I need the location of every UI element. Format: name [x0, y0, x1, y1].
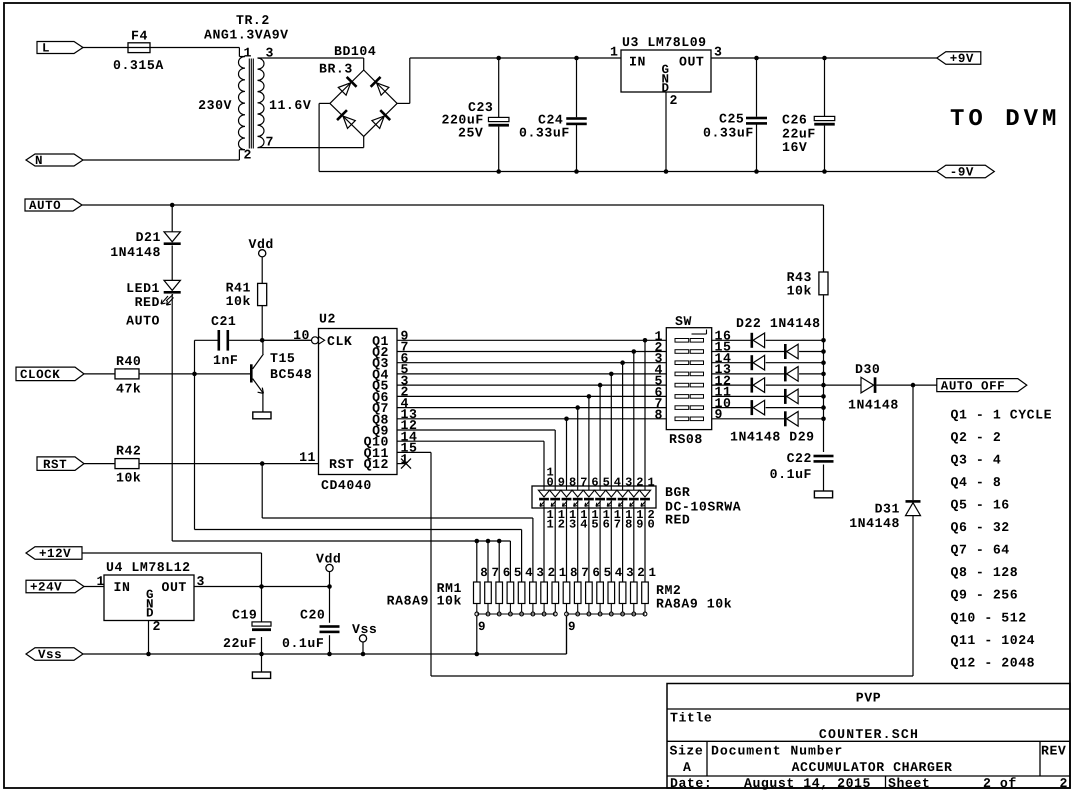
svg-text:Title: Title [670, 711, 712, 726]
junction dot Q7 [575, 405, 580, 410]
svg-text:6: 6 [603, 518, 611, 532]
junction dot bus row 5 [821, 383, 826, 388]
svg-text:RA8A9: RA8A9 [387, 594, 429, 609]
wire fuse to transformer [150, 48, 239, 57]
svg-text:7: 7 [614, 518, 622, 532]
svg-text:RST: RST [43, 458, 67, 472]
wire R42 to U2 RST [139, 463, 319, 465]
ground (T15 emitter) [253, 412, 271, 419]
svg-text:U2: U2 [319, 312, 336, 327]
svg-text:Date:: Date: [670, 776, 712, 791]
svg-text:RS08: RS08 [669, 432, 703, 447]
svg-text:3: 3 [714, 45, 722, 60]
wire LED1 to RM1 pins 5-8 [172, 294, 510, 541]
svg-text:8: 8 [570, 566, 578, 580]
voltage regulator U3 LM78L09 [610, 35, 722, 172]
wire U2 Q9 to BGR pin 9 [397, 430, 555, 486]
svg-text:5: 5 [514, 566, 522, 580]
svg-text:6: 6 [592, 566, 600, 580]
capacitor C24 0.33uF [519, 113, 587, 141]
svg-text:D30: D30 [855, 362, 880, 377]
svg-text:CD4040: CD4040 [321, 478, 372, 493]
svg-text:22uF: 22uF [223, 636, 257, 651]
resistor R43 10k [787, 270, 828, 299]
junction dot Q1 [643, 338, 648, 343]
wire BGR pin15 to RM2 pin6 [588, 508, 590, 582]
transformer TR.2 ANG1.3VA9V [198, 13, 311, 163]
svg-text:7: 7 [580, 476, 588, 490]
wire U4 out to Vdd node [194, 586, 330, 588]
svg-text:R42: R42 [116, 444, 141, 459]
svg-text:47k: 47k [116, 382, 141, 397]
svg-text:C22: C22 [787, 451, 812, 466]
svg-text:BR.3: BR.3 [319, 62, 353, 77]
transistor T15 BC548 [250, 340, 312, 412]
svg-text:Q8 - 128: Q8 - 128 [951, 565, 1019, 580]
svg-text:TR.2: TR.2 [236, 13, 270, 28]
wire C26 [824, 58, 826, 172]
wire Q8 to BGR pin 8 [566, 419, 568, 486]
wire U2 Q5 to SW pin 5 [397, 384, 666, 386]
svg-text:8: 8 [480, 566, 488, 580]
junction dot bus row 4 [821, 372, 826, 377]
capacitor C22 0.1uF [770, 451, 834, 482]
ground (C19) [252, 672, 270, 678]
text D22 1N4148 [736, 316, 821, 331]
diode D22 column row pin16 [712, 333, 824, 348]
text Q output cycle table [951, 407, 1053, 670]
junction dot Q3 [620, 360, 625, 365]
wire +12V to Vdd rail [82, 553, 262, 587]
svg-text:2: 2 [636, 476, 644, 490]
svg-text:OUT: OUT [162, 580, 187, 595]
svg-text:0: 0 [648, 518, 656, 532]
svg-text:L: L [42, 42, 50, 56]
junction dot RST branch [260, 461, 265, 466]
junction dot Q8 [564, 417, 569, 422]
svg-text:10k: 10k [437, 594, 462, 609]
svg-text:3: 3 [626, 566, 634, 580]
svg-text:1: 1 [547, 518, 555, 532]
svg-text:AUTO: AUTO [126, 314, 160, 329]
wire U2 Q6 to SW pin 6 [397, 395, 666, 397]
wire C22 to ground [823, 465, 825, 492]
wire R40 to T15 base [139, 373, 250, 375]
wire Q1 to BGR pin 1 [644, 340, 646, 486]
port RST [37, 457, 84, 472]
wire BGR pin19 to RM2 pin2 [633, 508, 635, 582]
junction dot Q2 [632, 349, 637, 354]
svg-text:Q11 - 1024: Q11 - 1024 [951, 633, 1036, 648]
svg-text:BD104: BD104 [334, 44, 376, 59]
port CLOCK [16, 367, 84, 382]
resistor network RM2 RA8A9 10k [563, 566, 732, 654]
capacitor C26 22uF 16V [782, 113, 835, 156]
resistor R41 10k [226, 257, 267, 309]
wire bridge left to -9V rail [319, 103, 937, 171]
diode D30 1N4148 [824, 362, 899, 413]
wire Q2 to BGR pin 2 [633, 352, 635, 487]
wire C25 [756, 58, 758, 172]
wire C24 [576, 58, 578, 172]
wire Vdd circle [329, 572, 331, 587]
capacitor C21 1nF [211, 314, 238, 368]
svg-text:Document Number: Document Number [711, 744, 843, 759]
wire C21 left to CLOCK line [195, 340, 218, 374]
svg-text:0.33uF: 0.33uF [519, 126, 570, 141]
svg-text:CLOCK: CLOCK [20, 368, 60, 382]
wire bridge right to +9V rail [397, 58, 621, 103]
svg-text:Q7 - 64: Q7 - 64 [951, 543, 1010, 558]
svg-text:0.1uF: 0.1uF [770, 467, 812, 482]
junction dot AUTO/D21 [170, 203, 175, 208]
svg-text:7: 7 [581, 566, 589, 580]
port +24V [26, 580, 84, 594]
diode D22 column row pin12 [712, 378, 824, 393]
capacitor C20 0.1uF [282, 587, 340, 655]
svg-text:Q6 - 32: Q6 - 32 [951, 520, 1010, 535]
svg-text:C26: C26 [782, 113, 807, 128]
wire BGR pin13 to RM2 pin8 [566, 508, 568, 582]
svg-text:+9V: +9V [950, 52, 974, 66]
svg-text:4: 4 [614, 476, 622, 490]
wire AUTO line [82, 205, 824, 272]
junction dot bus row 8 [821, 417, 826, 422]
svg-text:REV: REV [1041, 744, 1066, 759]
svg-text:5: 5 [604, 566, 612, 580]
svg-text:CLK: CLK [327, 334, 352, 349]
svg-text:16V: 16V [782, 140, 807, 155]
LED bargraph BGR DC-10SRWA RED [532, 466, 741, 532]
svg-text:August 14, 2015: August 14, 2015 [744, 776, 871, 791]
svg-text:D31: D31 [875, 502, 900, 517]
svg-text:9: 9 [558, 476, 566, 490]
wire transformer pin7 to bridge bottom [263, 136, 364, 147]
svg-text:ANG1.3VA9V: ANG1.3VA9V [204, 28, 289, 43]
wire BGR pin11 to RM1 pin2 [543, 508, 545, 582]
svg-text:LED1: LED1 [126, 281, 160, 296]
diode D31 1N4148 [849, 385, 920, 531]
svg-text:2: 2 [1060, 776, 1068, 791]
wire stub RM1 pin3 top [532, 518, 534, 582]
junction dot Q5 [598, 383, 603, 388]
wire +24V to U4 [84, 586, 104, 588]
svg-text:T15: T15 [270, 351, 295, 366]
svg-text:2: 2 [244, 148, 252, 163]
svg-text:2: 2 [558, 518, 566, 532]
wire stubs RM1 pins 5-8 tops [477, 541, 511, 582]
port N [26, 154, 83, 168]
svg-text:1: 1 [610, 45, 618, 60]
svg-text:OUT: OUT [679, 55, 704, 70]
svg-text:2: 2 [153, 619, 161, 634]
svg-text:10k: 10k [116, 471, 141, 486]
wire BGR pin20 to RM2 pin1 [644, 508, 646, 582]
wire Q5 to BGR pin 5 [599, 385, 601, 486]
junction dot bus row 7 [821, 405, 826, 410]
svg-text:Q12: Q12 [364, 457, 389, 472]
svg-text:25V: 25V [458, 126, 483, 141]
diode D22 column row pin10 [712, 400, 824, 415]
svg-text:RED: RED [665, 513, 690, 528]
junction dots Vss rail [146, 652, 479, 657]
svg-text:U3 LM78L09: U3 LM78L09 [622, 35, 707, 50]
svg-text:Q12 - 2048: Q12 - 2048 [951, 655, 1036, 670]
svg-text:C25: C25 [719, 112, 744, 127]
diode D29 column row pin12 [712, 366, 824, 381]
svg-text:6: 6 [503, 566, 511, 580]
svg-text:1: 1 [559, 566, 567, 580]
svg-text:Size: Size [670, 744, 704, 759]
voltage regulator U4 LM78L12 [97, 560, 205, 654]
svg-text:COUNTER.SCH: COUNTER.SCH [819, 727, 919, 742]
diode D29 column row pin14 [712, 344, 824, 359]
wire U2 Q4 to SW pin 4 [397, 373, 666, 375]
svg-text:AUTO: AUTO [29, 199, 61, 213]
junction dot Q6 [587, 394, 592, 399]
svg-text:IN: IN [114, 580, 131, 595]
svg-text:Q3 - 4: Q3 - 4 [951, 452, 1002, 467]
svg-text:9: 9 [478, 620, 486, 634]
svg-text:1: 1 [649, 566, 657, 580]
svg-text:0: 0 [547, 476, 555, 490]
wire U2 Q3 to SW pin 3 [397, 362, 666, 364]
svg-text:+12V: +12V [39, 547, 71, 561]
diode D29 column row pin10 [712, 389, 824, 404]
svg-text:9: 9 [568, 620, 576, 634]
resistor R42 10k [84, 444, 141, 486]
svg-text:Vdd: Vdd [316, 552, 341, 567]
svg-text:Q10 - 512: Q10 - 512 [951, 610, 1027, 625]
junction dot bus row 3 [821, 360, 826, 365]
junction dots +9V rail [496, 56, 826, 61]
svg-text:RED: RED [135, 295, 160, 310]
svg-text:BGR: BGR [665, 485, 690, 500]
svg-text:0.315A: 0.315A [113, 58, 164, 73]
junction dot AUTO OFF [911, 383, 916, 388]
text 1N4148 D29 [730, 430, 815, 445]
wire transformer pin3 to bridge top [263, 58, 364, 70]
wire stub RM1 pin4 top [521, 530, 523, 583]
wire RST branch to RM1 pin3 [262, 464, 533, 518]
wire BGR pin16 to RM2 pin5 [599, 508, 601, 582]
junction dots RM1 pins 6-8 [475, 539, 502, 544]
svg-text:Q5 - 16: Q5 - 16 [951, 498, 1010, 513]
wire R43 to bus [823, 295, 825, 452]
svg-text:TO DVM: TO DVM [950, 106, 1060, 133]
LED LED1 RED AUTO [126, 245, 181, 328]
svg-text:2: 2 [637, 566, 645, 580]
wire U2 Q8 to SW pin 8 [397, 418, 666, 420]
diode D21 1N4148 [110, 205, 180, 260]
svg-text:Vss: Vss [38, 648, 62, 662]
svg-text:BC548: BC548 [270, 367, 312, 382]
capacitor C25 0.33uF [703, 112, 767, 141]
wire CLOCK branch to RM1 pin4 [195, 374, 522, 530]
svg-text:8: 8 [625, 518, 633, 532]
svg-text:PVP: PVP [856, 691, 881, 706]
svg-text:9: 9 [636, 518, 644, 532]
svg-text:RA8A9 10k: RA8A9 10k [656, 597, 732, 612]
svg-text:3: 3 [569, 518, 577, 532]
junction dot Q4 [609, 372, 614, 377]
svg-text:1N4148: 1N4148 [848, 398, 899, 413]
svg-text:0.33uF: 0.33uF [703, 126, 754, 141]
port AUTO OFF [937, 379, 1027, 394]
power symbol Vdd (U4) [316, 552, 341, 572]
wire Q6 to BGR pin 6 [588, 396, 590, 486]
wire U2 Q10 to BGR pin 10 [397, 441, 544, 486]
wire U2 Q7 to SW pin 7 [397, 407, 666, 409]
ground (C22) [814, 491, 832, 498]
svg-text:Q4 - 8: Q4 - 8 [951, 475, 1002, 490]
svg-text:-9V: -9V [950, 166, 974, 180]
svg-text:RST: RST [329, 457, 354, 472]
svg-text:11: 11 [299, 450, 316, 465]
wire Q4 to BGR pin 4 [610, 374, 612, 486]
junction dot +12V/out [259, 584, 264, 589]
capacitor C19 22uF [223, 587, 271, 673]
wire L to fuse [82, 47, 150, 49]
svg-text:Vdd: Vdd [249, 237, 274, 252]
junction dots -9V rail [496, 169, 826, 174]
port AUTO [25, 199, 82, 213]
svg-text:1N4148: 1N4148 [849, 516, 900, 531]
svg-text:5: 5 [603, 476, 611, 490]
svg-text:7: 7 [492, 566, 500, 580]
svg-text:10k: 10k [226, 294, 251, 309]
svg-text:D21: D21 [136, 230, 161, 245]
wire Vss rail [83, 616, 567, 654]
svg-text:AUTO OFF: AUTO OFF [941, 379, 1005, 393]
wire R41 to CLK node [261, 306, 263, 341]
svg-text:A: A [683, 760, 691, 775]
svg-text:ACCUMULATOR CHARGER: ACCUMULATOR CHARGER [792, 760, 953, 775]
svg-text:4: 4 [580, 518, 588, 532]
wire Q3 to BGR pin 3 [622, 363, 624, 486]
no-connect X on U2 Q12 [397, 459, 411, 469]
svg-text:4: 4 [525, 566, 533, 580]
svg-text:Vss: Vss [352, 622, 377, 637]
svg-text:2 of: 2 of [983, 776, 1017, 791]
svg-text:1: 1 [244, 46, 252, 61]
junction dot bus row 2 [821, 349, 826, 354]
svg-text:9: 9 [715, 407, 723, 422]
svg-text:5: 5 [591, 518, 599, 532]
svg-text:U4 LM78L12: U4 LM78L12 [106, 560, 191, 575]
svg-text:C20: C20 [300, 608, 325, 623]
wire BGR pin18 to RM2 pin3 [622, 508, 624, 582]
port +9V [937, 52, 981, 66]
svg-text:Sheet: Sheet [888, 776, 930, 791]
wire Q7 to BGR pin 7 [577, 408, 579, 486]
svg-text:1nF: 1nF [213, 353, 238, 368]
svg-text:3: 3 [536, 566, 544, 580]
svg-text:6: 6 [591, 476, 599, 490]
text TO DVM [950, 106, 1060, 133]
wire N to transformer [83, 150, 239, 161]
wire U2 Q11 to D31 [397, 452, 913, 676]
junction dot bus row 6 [821, 394, 826, 399]
resistor network RM1 RA8A9 10k [387, 566, 567, 654]
port +12V [26, 547, 82, 561]
diode D22 column row pin14 [712, 355, 824, 370]
wire U2 CLK stub [262, 339, 311, 341]
wire U2 Q2 to SW pin 2 [397, 351, 666, 353]
port Vss [26, 648, 83, 662]
title block [667, 684, 1070, 792]
svg-text:SW: SW [675, 314, 692, 329]
wire BGR pin12 to RM1 pin1 [554, 508, 556, 582]
resistor R40 47k [84, 354, 141, 397]
diode D29 column row pin8 [712, 411, 824, 426]
bridge rectifier BD104 BR.3 [319, 44, 397, 136]
svg-text:R40: R40 [116, 354, 141, 369]
svg-text:8: 8 [655, 407, 663, 422]
wire U3 out to +9V [711, 57, 937, 59]
wire D30 to AUTO OFF [876, 384, 936, 386]
svg-text:C21: C21 [211, 314, 236, 329]
svg-text:+24V: +24V [30, 581, 62, 595]
junction dot bus row 1 [821, 338, 826, 343]
svg-text:1N4148: 1N4148 [110, 245, 161, 260]
wire BGR pin14 to RM2 pin7 [577, 508, 579, 582]
power symbol Vss (node) [352, 622, 377, 654]
svg-text:11.6V: 11.6V [269, 98, 311, 113]
svg-text:2: 2 [670, 93, 678, 108]
junction dot CLK node [260, 338, 265, 343]
svg-text:C19: C19 [232, 608, 257, 623]
svg-text:Q2 - 2: Q2 - 2 [951, 430, 1002, 445]
svg-text:8: 8 [569, 476, 577, 490]
svg-text:3: 3 [625, 476, 633, 490]
port L [37, 42, 83, 56]
svg-text:10k: 10k [787, 284, 812, 299]
svg-text:F4: F4 [131, 29, 148, 44]
svg-text:1: 1 [97, 574, 105, 589]
junction dot CLOCK branch [192, 372, 197, 377]
svg-text:230V: 230V [198, 98, 232, 113]
svg-text:IN: IN [629, 55, 646, 70]
fuse F4 [113, 29, 164, 74]
junction dot Vdd node [327, 584, 332, 589]
svg-text:2: 2 [548, 566, 556, 580]
wire C23 [498, 58, 500, 172]
svg-text:Q1 - 1 CYCLE: Q1 - 1 CYCLE [951, 407, 1053, 422]
svg-text:0.1uF: 0.1uF [282, 636, 324, 651]
svg-text:N: N [35, 154, 43, 168]
svg-text:1: 1 [648, 476, 656, 490]
svg-text:D22 1N4148: D22 1N4148 [736, 316, 821, 331]
svg-text:Q9 - 256: Q9 - 256 [951, 588, 1019, 603]
capacitor C23 220uF 25V [442, 100, 509, 141]
DIP switch SW RS08 [655, 314, 732, 447]
svg-text:4: 4 [615, 566, 623, 580]
wire U2 Q1 to SW pin 1 [397, 339, 666, 341]
IC U2 CD4040 counter [293, 312, 417, 494]
wire C21 right to CLK [229, 339, 311, 341]
power symbol Vdd (R41) [249, 237, 274, 257]
port -9V [937, 165, 995, 179]
svg-text:1N4148 D29: 1N4148 D29 [730, 430, 815, 445]
wire BGR pin17 to RM2 pin4 [610, 508, 612, 582]
